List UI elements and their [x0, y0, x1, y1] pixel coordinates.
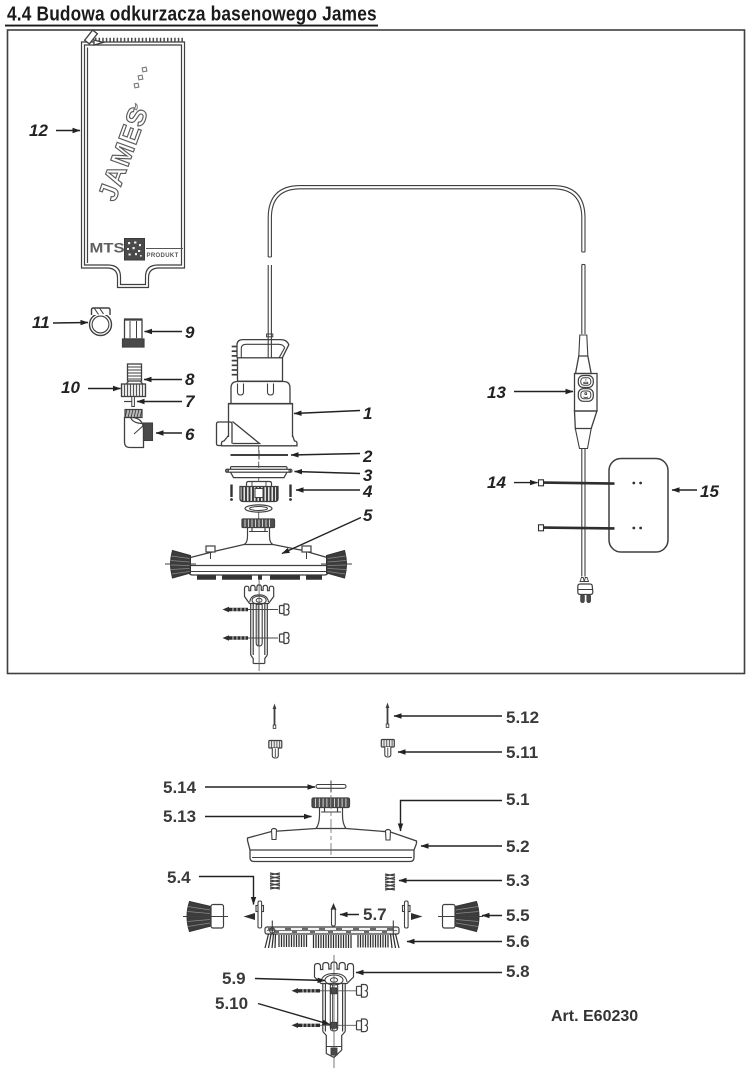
elbow 6: [125, 410, 153, 448]
base plate 5 right brush cone: [327, 551, 347, 579]
svg-text:JAMES: JAMES: [92, 102, 154, 204]
pump handle: [237, 340, 289, 358]
svg-text:14: 14: [487, 473, 506, 492]
left wheel brush 5.5: [183, 902, 228, 932]
mains plug: [578, 578, 593, 603]
pin 7: [124, 397, 134, 407]
svg-text:5: 5: [363, 506, 373, 525]
bag PRODUKT text: [146, 248, 183, 250]
storage box 15: [609, 459, 668, 553]
centerline ticks: [258, 447, 260, 519]
svg-text:5.11: 5.11: [506, 743, 538, 762]
base plate 5 top bolts: [206, 546, 311, 559]
pump base flare: [222, 436, 298, 446]
pin 5.14: [316, 781, 346, 793]
body 5.2 centerline: [330, 795, 332, 855]
rod 14 upper: [539, 480, 615, 486]
impeller 4: [240, 482, 278, 502]
svg-text:5.9: 5.9: [222, 969, 246, 988]
bracket shaft (in box): [251, 580, 268, 671]
base plate 5 left brush cone: [171, 551, 191, 579]
power cable to switch: [582, 265, 585, 335]
spring 5.3 left: [270, 873, 280, 889]
pump outlet spout cone: [233, 422, 260, 444]
svg-text:4.4 Budowa odkurzacza basenowe: 4.4 Budowa odkurzacza basenowego James: [7, 2, 377, 24]
storage box 15 dots: [632, 482, 642, 530]
pump cooling ribs: [232, 347, 238, 375]
svg-text:PRODUKT: PRODUKT: [147, 253, 179, 259]
svg-text:5.5: 5.5: [506, 906, 530, 925]
svg-text:2: 2: [362, 447, 373, 466]
power cable arc: [268, 186, 585, 257]
svg-text:4: 4: [362, 482, 373, 501]
pump lower body: [229, 404, 293, 438]
knob 5.13: [312, 798, 350, 808]
pump 1: [217, 265, 298, 446]
shaft wing nuts: [357, 985, 368, 1032]
left axle pin: [244, 901, 264, 928]
crown 5.8: [315, 962, 354, 985]
pump motor body: [238, 358, 283, 381]
switch 13: [575, 335, 598, 449]
pin 5.12 right: [386, 703, 390, 728]
svg-text:10: 10: [61, 378, 80, 397]
bracket wing nuts (in box): [280, 604, 290, 644]
svg-text:5.12: 5.12: [506, 708, 539, 727]
title underline: [5, 25, 378, 27]
knob 5.13 neck: [316, 808, 346, 829]
svg-text:5.3: 5.3: [506, 871, 530, 890]
bracket screws (in box): [223, 607, 249, 641]
svg-text:5.7: 5.7: [363, 905, 387, 924]
bag zipper teeth: [95, 38, 184, 42]
bracket crown (in box): [245, 585, 274, 605]
bag JAMES logo: [92, 102, 154, 204]
fitting 8 threaded top: [126, 364, 143, 384]
base plate 5 bristle strip: [197, 575, 322, 580]
center pin 5.7: [331, 903, 337, 926]
svg-text:15: 15: [700, 482, 719, 501]
svg-text:5.1: 5.1: [506, 790, 530, 809]
pin 5.12 left: [273, 704, 277, 729]
bag 12 outline: [82, 42, 185, 288]
svg-text:MTS: MTS: [90, 241, 125, 256]
impeller pins 4: [230, 485, 292, 501]
body 5.2 top pegs: [272, 829, 391, 841]
svg-text:7: 7: [185, 392, 196, 411]
svg-text:6: 6: [185, 425, 195, 444]
base plate 5 body: [187, 545, 331, 576]
spring 5.3 right: [385, 874, 395, 890]
frame box: [8, 30, 745, 674]
pump outlet tab: [217, 422, 233, 446]
lower shaft 5.8: [323, 955, 345, 1068]
pump shoulder slots: [238, 384, 244, 396]
shaft screws: [292, 988, 321, 1028]
svg-text:5.2: 5.2: [506, 837, 530, 856]
right axle pin: [403, 901, 423, 928]
body 5.2: [248, 829, 417, 862]
fitting 9: [123, 319, 145, 347]
bolt 5.11 left: [269, 741, 282, 759]
base plate 5 neck: [244, 528, 273, 545]
svg-text:13: 13: [487, 383, 506, 402]
pump cable stub: [267, 265, 269, 358]
svg-text:9: 9: [185, 323, 195, 342]
svg-text:8: 8: [185, 370, 195, 389]
o-ring: [245, 505, 272, 512]
svg-text:5.14: 5.14: [163, 778, 197, 797]
right wheel brush 5.5: [438, 902, 483, 932]
svg-text:12: 12: [29, 121, 48, 140]
svg-text:5.8: 5.8: [506, 962, 530, 981]
brush bar 5.6 bristles: [265, 934, 399, 948]
svg-text:5.6: 5.6: [506, 932, 530, 951]
base plate 5 knurled cap: [242, 519, 275, 528]
rod 14 lower: [539, 525, 615, 531]
seal disc 2: [231, 451, 289, 460]
hose clamp 11: [90, 308, 112, 336]
svg-text:Art. E60230: Art. E60230: [551, 1008, 638, 1025]
svg-text:1: 1: [363, 404, 372, 423]
shaft screw guide lines: [320, 990, 356, 992]
svg-text:11: 11: [32, 313, 50, 332]
svg-text:5.10: 5.10: [215, 994, 248, 1013]
plate 3: [226, 465, 293, 478]
switch 13 buttons: [578, 376, 593, 402]
svg-text:5.13: 5.13: [163, 807, 196, 826]
svg-text:5.4: 5.4: [167, 868, 191, 887]
shaft cross pins: [331, 988, 337, 994]
power cable below switch: [582, 449, 585, 577]
bag small squares: [134, 67, 147, 88]
brush bar 5.6 rail: [265, 921, 399, 935]
bracket screw guide lines (in box): [248, 609, 278, 611]
bag MTS qr block: [125, 239, 145, 261]
bag zipper pull: [85, 30, 103, 45]
pump shoulder section: [231, 382, 290, 404]
knurled nut 10: [122, 384, 146, 397]
bolt 5.11 right: [381, 740, 394, 758]
